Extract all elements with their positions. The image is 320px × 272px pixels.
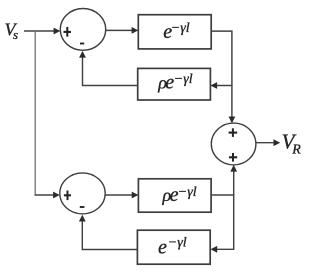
wire: branch to summing junction S2 (with arrowhead) bbox=[35, 192, 60, 199]
block H2: rho e^-gamma-l bbox=[138, 179, 211, 212]
S3 top plus sign bbox=[229, 128, 238, 137]
label G2: e^-gamma-l bbox=[158, 236, 187, 259]
S2 minus sign bbox=[80, 206, 85, 208]
summing junction S3 (output adder) bbox=[211, 123, 256, 165]
svg-text:s: s bbox=[13, 27, 18, 42]
svg-text:−γl: −γl bbox=[171, 21, 190, 36]
label G1: e^-gamma-l bbox=[163, 21, 190, 43]
wire: S2 output to block H2 (with arrowhead) bbox=[105, 192, 138, 199]
svg-text:−γl: −γl bbox=[178, 185, 197, 200]
S3 bottom plus sign bbox=[229, 153, 237, 162]
wire: branch from input node down toward S2 bbox=[34, 30, 36, 195]
block G1: e^-gamma-l bbox=[138, 15, 211, 49]
label H2: rho e^-gamma-l bbox=[162, 184, 197, 206]
svg-text:R: R bbox=[291, 142, 301, 157]
wire: S3 output to VR (with arrowhead) bbox=[256, 139, 280, 146]
S1 plus sign bbox=[64, 27, 72, 37]
block G2: e^-gamma-l bbox=[137, 230, 210, 264]
wire: Vs to summing junction S1 (with arrowhead) bbox=[24, 28, 60, 35]
svg-text:−γl: −γl bbox=[168, 236, 187, 251]
summing junction S2 bbox=[60, 173, 105, 214]
S2 plus sign bbox=[64, 191, 71, 201]
wire: tap from right bus into block H1 (with arrowhead) bbox=[210, 82, 232, 89]
label H1: rho e^-gamma-l bbox=[157, 72, 193, 94]
S1 minus sign bbox=[80, 43, 84, 45]
wire: G1 output right then down to S3 top (with arrowhead) bbox=[211, 31, 235, 123]
wire: lower bus down then left into block G2 (with arrowhead) bbox=[211, 194, 234, 252]
block H1: rho e^-gamma-l bbox=[138, 68, 211, 100]
svg-text:e: e bbox=[158, 237, 167, 259]
wire: H2 output right then up to S3 bottom (with arrowhead) bbox=[211, 165, 237, 195]
summing junction S1 bbox=[60, 9, 105, 51]
output label VR bbox=[282, 129, 302, 157]
wire: H1 output left then up to S1 minus input (with arrowhead) bbox=[79, 51, 138, 86]
input label Vs bbox=[5, 20, 19, 42]
wire: S1 output to block G1 (with arrowhead) bbox=[106, 27, 139, 34]
wire: G2 output left then up to S2 minus input (with arrowhead) bbox=[79, 215, 137, 250]
svg-text:−γl: −γl bbox=[174, 72, 193, 87]
